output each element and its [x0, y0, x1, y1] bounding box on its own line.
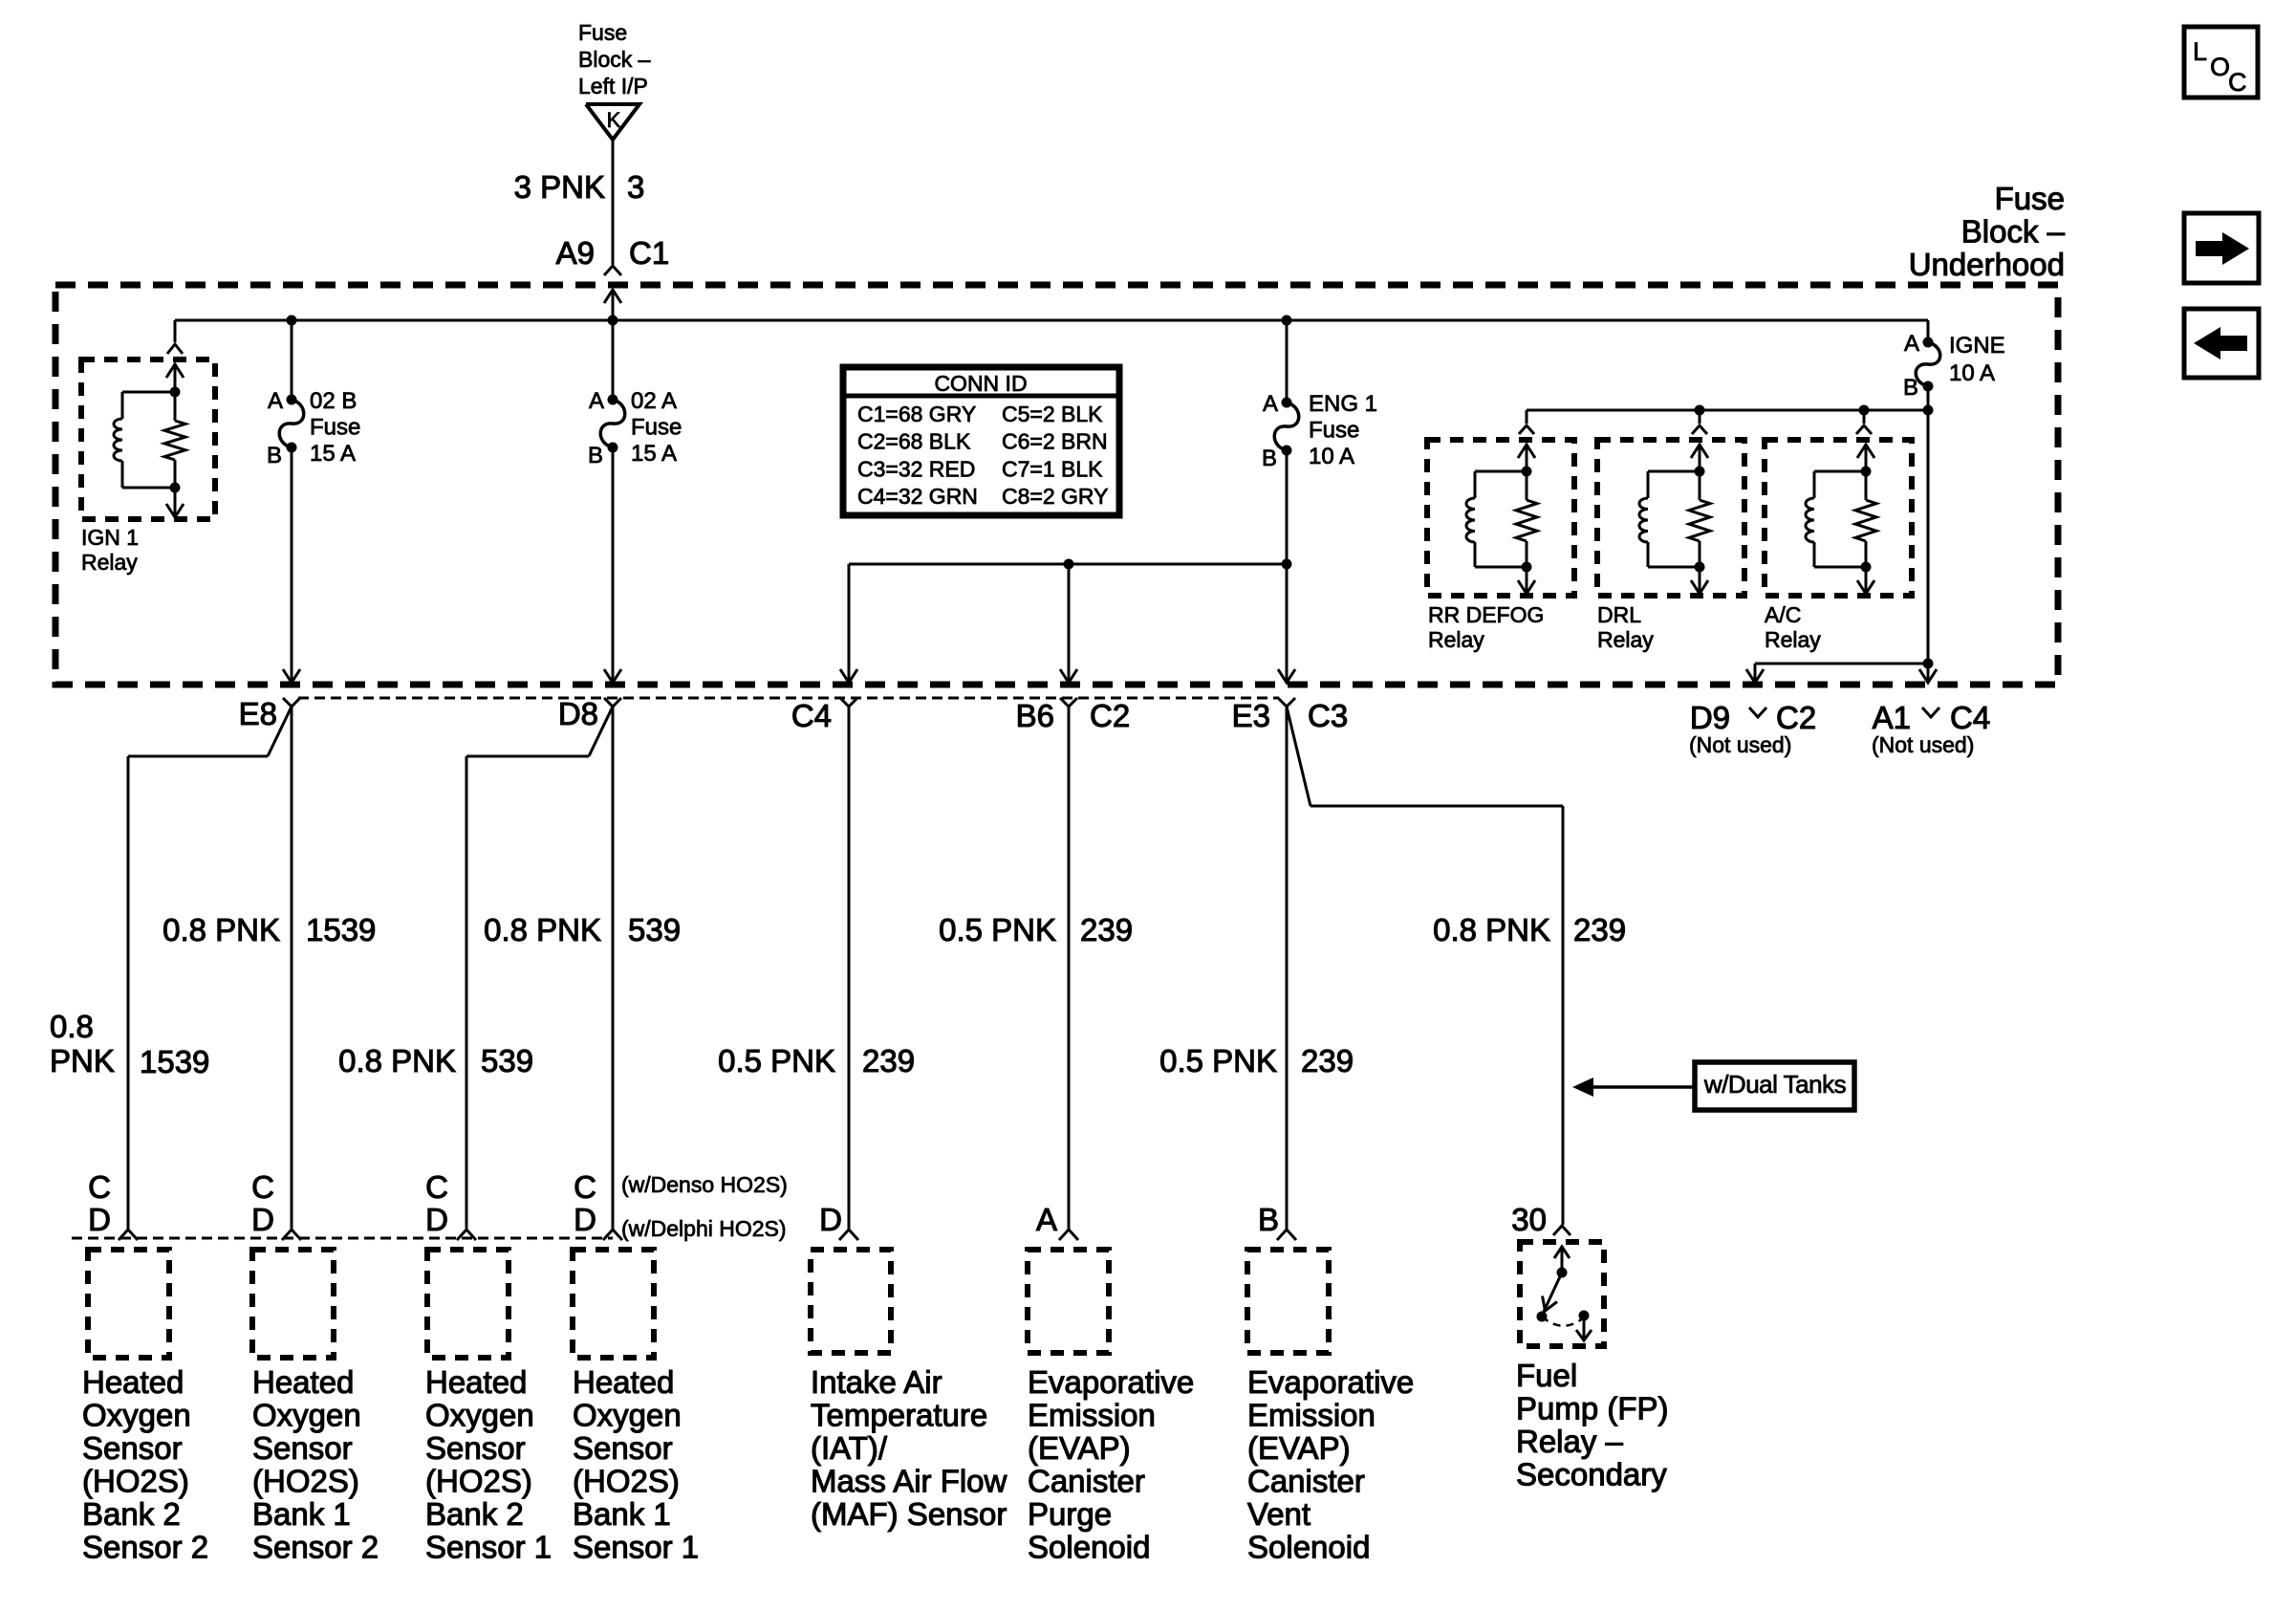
wire IGNE fuse down to A1 [1919, 386, 1937, 683]
svg-text:Bank 1: Bank 1 [252, 1496, 351, 1532]
svg-text:(HO2S): (HO2S) [425, 1464, 532, 1499]
svg-text:Heated: Heated [573, 1364, 674, 1400]
wire B6 to EVAP purge [1059, 707, 1078, 1240]
pin label A of EVAP purge [1036, 1202, 1057, 1237]
label D9 C2 [1690, 700, 1816, 735]
svg-text:Fuel: Fuel [1516, 1358, 1577, 1393]
wire drop RR DEFOG [1519, 410, 1534, 434]
junction dot at ENG1 fuse [1282, 316, 1292, 326]
wire bus to ENG1 fuse [1286, 320, 1289, 403]
svg-text:D8: D8 [558, 696, 598, 731]
svg-text:B6: B6 [1016, 698, 1054, 733]
label 0.5 PNK 239 for C4 [718, 1043, 915, 1078]
svg-text:(HO2S): (HO2S) [82, 1464, 189, 1499]
svg-text:C7=1 BLK: C7=1 BLK [1002, 456, 1103, 481]
relay coil box IGN 1 Relay [81, 359, 215, 519]
svg-text:IGN 1: IGN 1 [81, 525, 139, 550]
svg-text:A: A [268, 388, 283, 414]
pin labels C D of HO2S B2S2 [88, 1169, 111, 1237]
svg-text:539: 539 [481, 1043, 533, 1078]
svg-text:Relay: Relay [1428, 627, 1484, 652]
svg-text:K: K [607, 108, 621, 132]
connector chevron E3/C3 [1278, 698, 1295, 707]
pin labels C D of HO2S B2S1 [425, 1169, 448, 1237]
label 0.8 PNK 1539 lower [50, 1009, 209, 1079]
component box HO2S Bank2 Sensor1 [427, 1250, 509, 1358]
connector chevron D9/C2 [1749, 708, 1766, 717]
label 0.8 PNK 539 lower [338, 1043, 533, 1078]
label IGNE 10 A [1949, 333, 2005, 386]
pin labels A B of ENG1 fuse [1262, 391, 1278, 471]
svg-text:Block –: Block – [1961, 214, 2066, 250]
label Heated Oxygen Sensor Bank 2 Sensor 1 [425, 1364, 552, 1565]
label not used A1 [1872, 732, 1974, 757]
svg-text:(EVAP): (EVAP) [1247, 1430, 1351, 1466]
relay DRL [1597, 440, 1744, 596]
label Intake Air Temperature MAF Sensor [811, 1364, 1007, 1532]
svg-text:Solenoid: Solenoid [1028, 1530, 1150, 1565]
svg-text:(Not used): (Not used) [1872, 732, 1974, 757]
svg-text:(EVAP): (EVAP) [1028, 1430, 1131, 1466]
connector chevron B6/C2 [1060, 698, 1077, 707]
svg-text:ENG 1: ENG 1 [1309, 391, 1377, 417]
svg-text:Vent: Vent [1247, 1496, 1310, 1532]
svg-text:239: 239 [862, 1043, 915, 1078]
svg-text:10 A: 10 A [1949, 360, 1995, 386]
svg-text:Solenoid: Solenoid [1247, 1530, 1370, 1565]
off-page connector K to Fuse Block - Left I/P [586, 104, 639, 140]
svg-text:Oxygen: Oxygen [252, 1398, 361, 1433]
svg-text:Bank 2: Bank 2 [425, 1496, 524, 1532]
wire bus to IGNE fuse [1927, 320, 1930, 342]
icon next-page arrow [2184, 213, 2259, 283]
label pins A9 / C1 [556, 235, 670, 271]
svg-text:0.5 PNK: 0.5 PNK [1159, 1043, 1277, 1078]
fuse 02 A 15 A [600, 395, 625, 453]
wire bus to 02A fuse [612, 320, 615, 400]
svg-text:Emission: Emission [1028, 1398, 1156, 1433]
fuse 02 B 15 A [279, 395, 304, 453]
component box EVAP purge solenoid [1028, 1250, 1109, 1353]
wire E3 branch to fuel pump relay [1287, 707, 1570, 1235]
label Fuel Pump Relay Secondary [1516, 1358, 1669, 1492]
label not used D9 [1689, 732, 1791, 757]
svg-text:3: 3 [627, 169, 644, 205]
wire branch to B6 [1060, 564, 1077, 683]
label B6 C2 [1016, 698, 1131, 733]
svg-text:RR DEFOG: RR DEFOG [1428, 602, 1544, 627]
wire ENG1 fuse to E3 [1278, 450, 1295, 683]
harness dashed line at sensors [72, 1237, 613, 1240]
label E3 C3 [1232, 698, 1349, 733]
pin labels C D of HO2S B1S1 [574, 1169, 596, 1237]
svg-text:C: C [251, 1169, 274, 1205]
label ENG 1 Fuse 10 A [1309, 391, 1377, 469]
pin labels A B of 02B fuse [267, 388, 283, 468]
svg-text:Evaporative: Evaporative [1247, 1364, 1414, 1400]
wire E8 straight down [282, 707, 301, 1240]
svg-text:Sensor: Sensor [252, 1430, 353, 1466]
wire D8 branch to HO2S B2S1 [457, 707, 613, 1240]
svg-text:Sensor: Sensor [425, 1430, 526, 1466]
pin label B of EVAP vent [1258, 1202, 1279, 1237]
connector chevron D8 [604, 698, 621, 707]
label EVAP Canister Purge Solenoid [1028, 1364, 1194, 1565]
svg-text:0.8 PNK: 0.8 PNK [162, 912, 280, 947]
svg-text:Mass Air Flow: Mass Air Flow [811, 1464, 1007, 1499]
svg-text:C2=68 BLK: C2=68 BLK [857, 429, 971, 454]
svg-text:C5=2 BLK: C5=2 BLK [1002, 402, 1103, 426]
svg-text:B: B [1262, 446, 1277, 471]
svg-text:Canister: Canister [1028, 1464, 1145, 1499]
wire branch to C4 [840, 564, 1287, 683]
sub-bus wire to relays [1527, 405, 1934, 416]
svg-text:30: 30 [1511, 1202, 1547, 1237]
svg-text:0.8: 0.8 [50, 1009, 94, 1044]
svg-text:Temperature: Temperature [811, 1398, 987, 1433]
svg-text:Relay: Relay [1597, 627, 1654, 652]
wire 3 PNK from K to C1 [612, 140, 615, 265]
pin labels C D of HO2S B1S2 [251, 1169, 274, 1237]
svg-text:C: C [2228, 68, 2247, 97]
svg-text:02 A: 02 A [631, 388, 677, 414]
pin labels A B of IGNE fuse [1903, 331, 1919, 401]
svg-text:D: D [251, 1202, 274, 1237]
svg-text:Oxygen: Oxygen [573, 1398, 682, 1433]
label C4 [791, 698, 832, 733]
relay switch Fuel Pump Relay Secondary [1520, 1242, 1604, 1346]
svg-text:0.5 PNK: 0.5 PNK [939, 912, 1056, 947]
label A/C Relay [1765, 602, 1821, 652]
junction dot B6 branch [1064, 559, 1074, 570]
pin label D of IAT [819, 1202, 842, 1237]
svg-text:Intake Air: Intake Air [811, 1364, 942, 1400]
CONN ID table [843, 367, 1119, 515]
svg-text:1539: 1539 [140, 1044, 209, 1079]
svg-text:B: B [1258, 1202, 1279, 1237]
svg-text:DRL: DRL [1597, 602, 1641, 627]
svg-text:C1: C1 [629, 235, 669, 271]
fuse IGNE 10 A [1916, 337, 1940, 392]
label 02 B Fuse 15 A [310, 388, 360, 467]
svg-text:10 A: 10 A [1309, 444, 1354, 469]
svg-text:A: A [1263, 391, 1278, 417]
svg-text:539: 539 [628, 912, 681, 947]
junction dot ENG1 branch [1282, 559, 1292, 570]
label DRL Relay [1597, 602, 1654, 652]
svg-text:Fuse: Fuse [310, 415, 360, 441]
label Fuse Block - Underhood [1909, 181, 2066, 282]
label Heated Oxygen Sensor Bank 1 Sensor 1 [573, 1364, 699, 1565]
wire 02A fuse to D8 [604, 447, 621, 683]
svg-text:(w/Delphi HO2S): (w/Delphi HO2S) [621, 1216, 787, 1241]
svg-text:Fuse: Fuse [578, 20, 627, 45]
connector chevron C4 [840, 698, 857, 707]
label 02 A Fuse 15 A [631, 388, 682, 467]
svg-text:C4: C4 [1950, 700, 1990, 735]
svg-text:15 A: 15 A [631, 441, 677, 467]
svg-text:D: D [574, 1202, 596, 1237]
svg-text:C8=2 GRY: C8=2 GRY [1002, 484, 1108, 509]
component box HO2S Bank1 Sensor1 [573, 1250, 654, 1358]
label EVAP Canister Vent Solenoid [1247, 1364, 1414, 1565]
svg-text:L: L [2193, 37, 2207, 66]
label 0.5 PNK 239 for B6 [939, 912, 1133, 947]
svg-text:Relay: Relay [81, 550, 138, 575]
label RR DEFOG Relay [1428, 602, 1544, 652]
svg-text:Sensor: Sensor [82, 1430, 183, 1466]
svg-text:Oxygen: Oxygen [82, 1398, 191, 1433]
svg-text:239: 239 [1080, 912, 1133, 947]
svg-text:Fuse: Fuse [1995, 181, 2065, 216]
svg-text:C2: C2 [1090, 698, 1130, 733]
component box HO2S Bank1 Sensor2 [252, 1250, 334, 1358]
component box EVAP vent solenoid [1247, 1250, 1329, 1353]
label Fuse Block - Left I/P [578, 20, 651, 98]
pin labels A B of 02A fuse [588, 388, 604, 468]
label 0.5 PNK 239 for E3 [1159, 1043, 1354, 1078]
wire bus to 02B fuse [291, 320, 293, 400]
svg-text:C1=68 GRY: C1=68 GRY [857, 402, 976, 426]
svg-text:Purge: Purge [1028, 1496, 1112, 1532]
svg-text:Bank 1: Bank 1 [573, 1496, 671, 1532]
label IGN 1 Relay [81, 525, 139, 575]
svg-text:E8: E8 [239, 696, 277, 731]
junction dot at 02B fuse [287, 316, 297, 326]
svg-text:A1: A1 [1873, 700, 1911, 735]
svg-text:Secondary: Secondary [1516, 1457, 1667, 1492]
svg-text:Emission: Emission [1247, 1398, 1375, 1433]
svg-text:PNK: PNK [50, 1043, 115, 1078]
svg-text:A: A [1036, 1202, 1057, 1237]
svg-text:Sensor 2: Sensor 2 [252, 1530, 379, 1565]
connector chevron E8 [283, 698, 300, 707]
svg-text:1539: 1539 [306, 912, 376, 947]
svg-text:A: A [589, 388, 604, 414]
svg-text:Heated: Heated [425, 1364, 527, 1400]
svg-text:Heated: Heated [82, 1364, 184, 1400]
svg-text:C6=2 BRN: C6=2 BRN [1002, 429, 1108, 454]
wire drop A/C [1856, 410, 1872, 434]
svg-text:IGNE: IGNE [1949, 333, 2005, 359]
label 0.8 PNK 1539 upper [162, 912, 376, 947]
wire bus to IGN 1 relay [167, 320, 183, 354]
svg-text:A/C: A/C [1765, 602, 1801, 627]
svg-text:D: D [425, 1202, 448, 1237]
svg-text:(HO2S): (HO2S) [252, 1464, 359, 1499]
svg-text:0.5 PNK: 0.5 PNK [718, 1043, 835, 1078]
label E8 [239, 696, 277, 731]
junction dot IGNE to D9 [1923, 659, 1934, 669]
svg-text:E3: E3 [1232, 698, 1270, 733]
svg-text:B: B [1903, 375, 1918, 401]
svg-text:02 B: 02 B [310, 388, 357, 414]
icon prev-page arrow [2184, 309, 2259, 378]
svg-text:Heated: Heated [252, 1364, 354, 1400]
svg-text:D: D [88, 1202, 111, 1237]
svg-text:Pump (FP): Pump (FP) [1516, 1391, 1669, 1426]
wire E8 branch to HO2S B2S2 [119, 707, 292, 1240]
svg-text:Fuse: Fuse [631, 415, 682, 441]
wire 02B fuse to E8 [283, 447, 300, 683]
wire IGNE to D9 [1746, 664, 1928, 683]
svg-text:0.8 PNK: 0.8 PNK [484, 912, 601, 947]
svg-text:C: C [425, 1169, 448, 1205]
svg-text:239: 239 [1573, 912, 1626, 947]
wire drop DRL [1692, 410, 1707, 434]
svg-text:15 A: 15 A [310, 441, 356, 467]
label Heated Oxygen Sensor Bank 1 Sensor 2 [252, 1364, 379, 1565]
svg-text:3 PNK: 3 PNK [514, 169, 605, 205]
pin label 30 of FP relay [1511, 1202, 1547, 1237]
svg-text:C3: C3 [1308, 698, 1348, 733]
callout box w/Dual Tanks [1695, 1062, 1854, 1110]
svg-text:Relay: Relay [1765, 627, 1821, 652]
fuse ENG 1 10 A [1274, 398, 1299, 456]
icon LOC box [2184, 27, 2258, 98]
svg-text:239: 239 [1301, 1043, 1354, 1078]
svg-text:(Not used): (Not used) [1689, 732, 1791, 757]
svg-text:C3=32 RED: C3=32 RED [857, 456, 975, 481]
svg-text:Bank 2: Bank 2 [82, 1496, 181, 1532]
svg-text:B: B [267, 443, 282, 468]
svg-text:Underhood: Underhood [1909, 247, 2065, 282]
svg-text:Oxygen: Oxygen [425, 1398, 534, 1433]
wire C4 to IAT sensor [839, 707, 858, 1240]
svg-text:C: C [574, 1169, 596, 1205]
bus wire inside fuse block [175, 319, 1928, 322]
svg-text:Evaporative: Evaporative [1028, 1364, 1194, 1400]
svg-text:Block –: Block – [578, 47, 651, 72]
svg-text:O: O [2210, 53, 2230, 81]
svg-text:Fuse: Fuse [1309, 418, 1359, 444]
svg-text:(IAT)/: (IAT)/ [811, 1430, 888, 1466]
junction dot DRL [1695, 405, 1705, 416]
label 0.8 PNK 239 for FP [1433, 912, 1626, 947]
arrow into fuse block at C1 [604, 290, 621, 320]
svg-text:CONN ID: CONN ID [934, 371, 1027, 396]
component box HO2S Bank2 Sensor2 [88, 1250, 169, 1358]
relay A/C [1765, 440, 1912, 596]
label w/Denso HO2S [621, 1172, 788, 1197]
svg-text:Sensor: Sensor [573, 1430, 673, 1466]
svg-text:Relay –: Relay – [1516, 1424, 1624, 1459]
wire D8 straight down [603, 707, 622, 1240]
label 3 PNK / 3 [514, 169, 645, 205]
svg-text:D: D [819, 1202, 842, 1237]
label w/Delphi HO2S [621, 1216, 787, 1241]
svg-text:C2: C2 [1776, 700, 1816, 735]
svg-text:C: C [88, 1169, 111, 1205]
svg-text:A: A [1904, 331, 1919, 357]
svg-text:D9: D9 [1690, 700, 1730, 735]
dashed box Fuse Block - Underhood [55, 285, 2058, 685]
arrow w/Dual Tanks [1572, 1078, 1695, 1097]
junction dot A/C [1859, 405, 1870, 416]
svg-text:(HO2S): (HO2S) [573, 1464, 680, 1499]
svg-text:(w/Denso HO2S): (w/Denso HO2S) [621, 1172, 788, 1197]
svg-text:w/Dual Tanks: w/Dual Tanks [1703, 1070, 1847, 1099]
wire E3 to EVAP vent [1277, 707, 1296, 1240]
svg-text:Sensor 2: Sensor 2 [82, 1530, 208, 1565]
svg-text:Canister: Canister [1247, 1464, 1365, 1499]
label Heated Oxygen Sensor Bank 2 Sensor 2 [82, 1364, 208, 1565]
label A1 C4 [1873, 700, 1991, 735]
svg-text:A9: A9 [556, 235, 595, 271]
connector chevron A9/C1 [604, 266, 621, 275]
label 0.8 PNK 539 upper [484, 912, 681, 947]
svg-text:C4=32 GRN: C4=32 GRN [857, 484, 978, 509]
svg-text:(MAF) Sensor: (MAF) Sensor [811, 1496, 1007, 1532]
svg-text:B: B [588, 443, 603, 468]
svg-text:Sensor 1: Sensor 1 [425, 1530, 552, 1565]
harness dashed line below fuse block [298, 697, 1279, 700]
relay RR DEFOG [1427, 440, 1574, 596]
svg-text:Sensor 1: Sensor 1 [573, 1530, 699, 1565]
connector chevron A1/C4 [1922, 708, 1939, 717]
svg-text:C4: C4 [791, 698, 832, 733]
label D8 [558, 696, 598, 731]
svg-text:0.8 PNK: 0.8 PNK [338, 1043, 456, 1078]
svg-text:0.8 PNK: 0.8 PNK [1433, 912, 1550, 947]
junction dot at 02A fuse [608, 316, 618, 326]
svg-text:Left I/P: Left I/P [578, 74, 648, 98]
component box IAT/MAF sensor [811, 1250, 891, 1353]
